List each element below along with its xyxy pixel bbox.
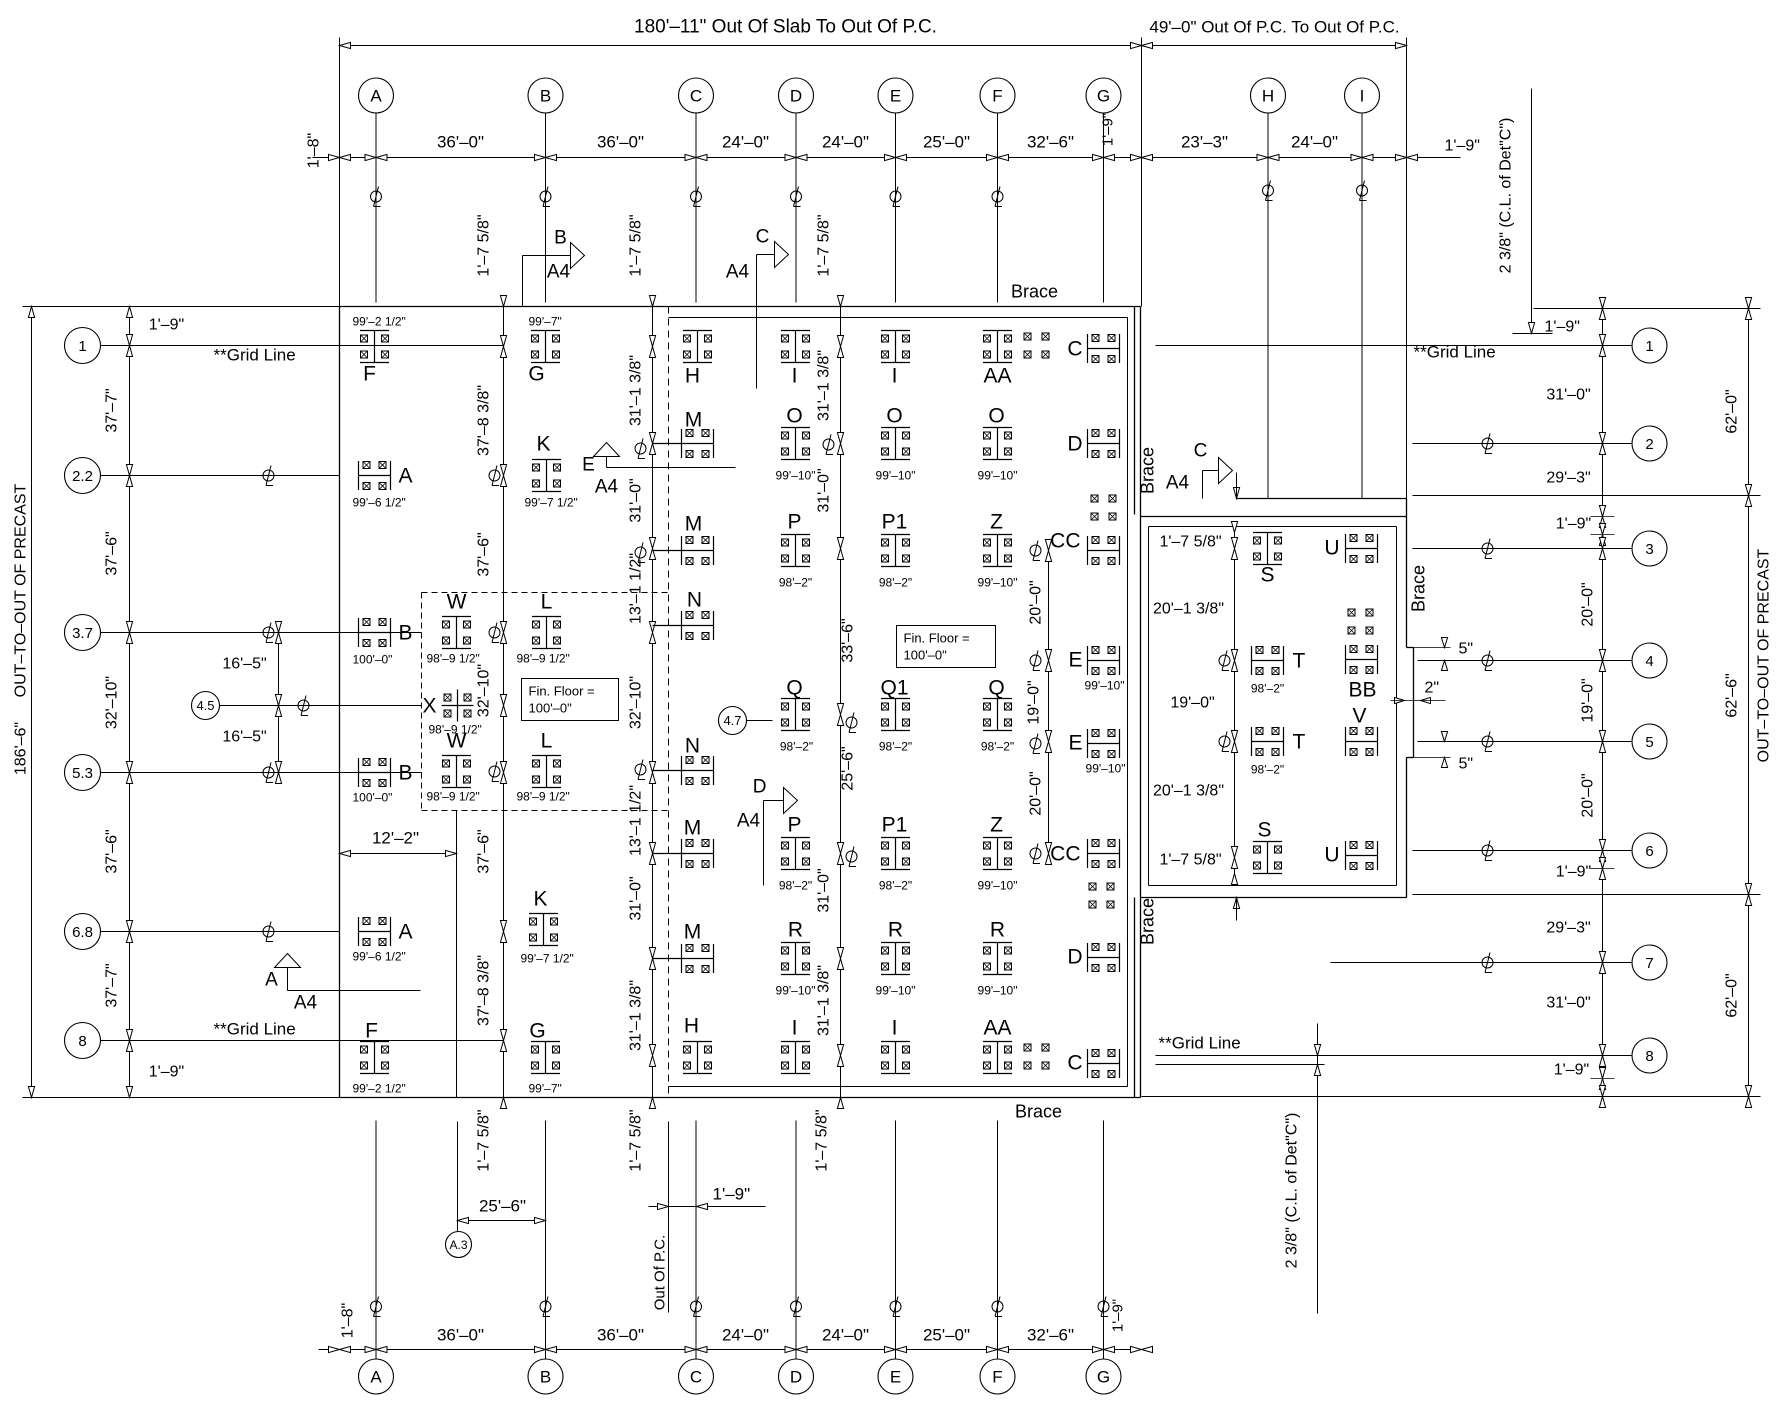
svg-text:N: N bbox=[687, 589, 702, 612]
top grid spacing dimension line bbox=[313, 157, 1461, 159]
svg-text:Fin. Floor =: Fin. Floor = bbox=[529, 684, 595, 699]
svg-text:M: M bbox=[685, 513, 703, 536]
svg-text:99'–7": 99'–7" bbox=[529, 315, 562, 329]
column H at C-1 bbox=[683, 331, 712, 388]
column O at D-2 bbox=[776, 405, 816, 483]
svg-text:23'–3": 23'–3" bbox=[1181, 133, 1228, 152]
svg-text:P: P bbox=[787, 814, 801, 837]
overall top dimension 49-0 bbox=[1142, 45, 1407, 47]
centerline mark H bbox=[1263, 181, 1274, 201]
grid line I bbox=[1361, 114, 1363, 499]
column I at D-8 bbox=[781, 1017, 810, 1074]
centerline mark E top bbox=[890, 187, 901, 207]
svg-text:1'–7 5/8": 1'–7 5/8" bbox=[476, 1109, 493, 1171]
svg-text:37'–6": 37'–6" bbox=[476, 829, 493, 873]
centerline mark D bottom bbox=[791, 1297, 802, 1317]
svg-text:98'–9 1/2": 98'–9 1/2" bbox=[427, 652, 480, 666]
svg-text:W: W bbox=[447, 591, 467, 614]
svg-text:37'–6": 37'–6" bbox=[476, 532, 493, 576]
svg-text:1'–9": 1'–9" bbox=[713, 1185, 751, 1204]
svg-text:Brace: Brace bbox=[1015, 1102, 1062, 1122]
svg-text:F: F bbox=[992, 1368, 1002, 1387]
svg-text:99'–10": 99'–10" bbox=[876, 984, 916, 998]
grid row 3.7/5.3 stubs into plan bbox=[340, 632, 422, 634]
interior dim line right of G columns (x=1048) bbox=[1048, 551, 1050, 854]
column A at A-6.8 bbox=[353, 917, 413, 964]
svg-text:V: V bbox=[1352, 705, 1366, 728]
column V bbox=[1346, 705, 1378, 757]
svg-text:OUT–TO–OUT OF PRECAST: OUT–TO–OUT OF PRECAST bbox=[13, 483, 30, 697]
svg-text:62'–6": 62'–6" bbox=[1724, 673, 1741, 717]
section arrow E bbox=[594, 443, 620, 457]
column O at F-2 bbox=[978, 405, 1018, 483]
svg-text:C: C bbox=[690, 1368, 702, 1387]
svg-text:20'–1 3/8": 20'–1 3/8" bbox=[1153, 783, 1224, 800]
column Z at F-6 bbox=[978, 814, 1018, 893]
svg-text:U: U bbox=[1324, 844, 1339, 867]
centerline mark C top bbox=[691, 187, 702, 207]
column CC lower bbox=[1050, 839, 1119, 868]
svg-text:99'–6 1/2": 99'–6 1/2" bbox=[353, 950, 406, 964]
svg-text:Brace: Brace bbox=[1138, 447, 1158, 494]
anchor bolt cluster near U bbox=[1348, 609, 1355, 616]
centerline at W/L upper bbox=[489, 623, 500, 643]
column M at C-3 bbox=[653, 513, 714, 566]
svg-text:31'–1 3/8": 31'–1 3/8" bbox=[816, 350, 833, 421]
section arrow A bbox=[275, 954, 301, 968]
svg-text:37'–7": 37'–7" bbox=[104, 963, 121, 1007]
Out of P.C. line below building bbox=[668, 1122, 670, 1313]
right out-to-out 62-ft dimension line bbox=[1534, 308, 1761, 310]
column S lower bbox=[1253, 819, 1282, 874]
svg-text:3: 3 bbox=[1645, 541, 1653, 558]
svg-text:1'–8": 1'–8" bbox=[306, 133, 323, 168]
grid line B (top) bbox=[545, 114, 547, 303]
svg-text:98'–9 1/2": 98'–9 1/2" bbox=[427, 790, 480, 804]
grid row 4.7 circle bbox=[719, 707, 747, 735]
svg-text:F: F bbox=[365, 1020, 378, 1043]
svg-text:G: G bbox=[1097, 87, 1110, 106]
column W upper bbox=[427, 591, 480, 666]
right det C reference bottom bbox=[1317, 1024, 1319, 1314]
grid line D (bottom) bbox=[795, 1121, 797, 1359]
grid row 6 (right) bbox=[1632, 833, 1667, 868]
svg-text:4.5: 4.5 bbox=[196, 698, 214, 713]
svg-text:H: H bbox=[1262, 87, 1274, 106]
column AA at F-1 bbox=[983, 331, 1012, 388]
column Q at D-4.7 bbox=[780, 677, 813, 754]
svg-text:C: C bbox=[690, 87, 702, 106]
grid row 1 (right) bbox=[1632, 328, 1667, 363]
svg-text:1'–9": 1'–9" bbox=[149, 1064, 184, 1081]
svg-text:31'–1 3/8": 31'–1 3/8" bbox=[628, 355, 645, 426]
anchor bolt cluster G line upper bbox=[1091, 495, 1098, 502]
svg-text:Brace: Brace bbox=[1138, 898, 1158, 945]
svg-text:Brace: Brace bbox=[1409, 565, 1429, 612]
svg-text:M: M bbox=[684, 817, 702, 840]
column T lower bbox=[1251, 727, 1306, 777]
svg-text:B: B bbox=[540, 1368, 551, 1387]
svg-text:A4: A4 bbox=[595, 477, 619, 498]
svg-text:98'–2": 98'–2" bbox=[981, 740, 1014, 754]
svg-text:T: T bbox=[1293, 731, 1306, 754]
grid line G (top) bbox=[1103, 114, 1105, 303]
svg-text:G: G bbox=[1097, 1368, 1110, 1387]
svg-text:W: W bbox=[447, 730, 467, 753]
svg-text:**Grid Line: **Grid Line bbox=[1159, 1034, 1241, 1053]
grid line A (bottom) bbox=[375, 1121, 377, 1359]
column L lower bbox=[517, 730, 570, 804]
svg-text:1'–7 5/8": 1'–7 5/8" bbox=[628, 1109, 645, 1171]
svg-text:32'–10": 32'–10" bbox=[628, 676, 645, 729]
25-6 dim at A.3 bbox=[457, 1122, 459, 1232]
svg-text:R: R bbox=[788, 919, 803, 942]
svg-text:49'–0" Out Of P.C. To Out Of P: 49'–0" Out Of P.C. To Out Of P.C. bbox=[1149, 18, 1399, 37]
svg-text:1: 1 bbox=[78, 338, 86, 355]
interior dim line between D and E (x=840) bbox=[840, 307, 842, 1098]
svg-text:E: E bbox=[582, 455, 595, 476]
svg-text:24'–0": 24'–0" bbox=[722, 133, 769, 152]
svg-text:D: D bbox=[790, 1368, 802, 1387]
centerline at W/L lower bbox=[489, 762, 500, 782]
16-5 dims at row 4.5 bbox=[278, 633, 280, 773]
svg-text:13'–1 1/2": 13'–1 1/2" bbox=[628, 553, 645, 624]
svg-text:R: R bbox=[990, 919, 1005, 942]
svg-text:20'–0": 20'–0" bbox=[1580, 773, 1597, 817]
svg-text:P1: P1 bbox=[882, 511, 908, 534]
svg-text:S: S bbox=[1260, 564, 1274, 587]
svg-text:99'–2 1/2": 99'–2 1/2" bbox=[353, 315, 406, 329]
svg-text:37'–6": 37'–6" bbox=[104, 829, 121, 873]
column A at A-2.2 bbox=[353, 461, 413, 510]
svg-text:1'–9": 1'–9" bbox=[1556, 864, 1591, 881]
column G at B-1 bbox=[528, 315, 561, 386]
svg-text:O: O bbox=[786, 405, 802, 428]
column I at D-1 bbox=[781, 331, 810, 388]
svg-text:5.3: 5.3 bbox=[72, 765, 93, 782]
grid line H bbox=[1267, 114, 1269, 499]
grid row 6.8 (left) bbox=[65, 914, 101, 950]
column R at E-7 bbox=[876, 919, 916, 998]
svg-text:A4: A4 bbox=[294, 993, 318, 1014]
column M at C-6 bbox=[653, 817, 714, 869]
svg-text:OUT–TO–OUT OF PRECAST: OUT–TO–OUT OF PRECAST bbox=[1756, 548, 1773, 762]
column Z at F-3 bbox=[978, 511, 1018, 590]
svg-text:U: U bbox=[1324, 537, 1339, 560]
svg-text:98'–2": 98'–2" bbox=[780, 740, 813, 754]
svg-text:99'–10": 99'–10" bbox=[1085, 679, 1125, 693]
left grid row dimension line bbox=[129, 307, 131, 1098]
svg-text:I: I bbox=[892, 365, 898, 388]
svg-text:32'–10": 32'–10" bbox=[476, 664, 493, 717]
svg-text:1'–7 5/8": 1'–7 5/8" bbox=[476, 214, 493, 276]
section arrow C bbox=[775, 242, 789, 268]
svg-text:31'–0": 31'–0" bbox=[1546, 387, 1590, 404]
svg-text:Q: Q bbox=[988, 677, 1004, 700]
svg-text:12'–2": 12'–2" bbox=[372, 829, 419, 848]
column E at G-5 bbox=[1068, 729, 1125, 776]
column P1 at E-3 bbox=[879, 511, 912, 590]
svg-text:98'–2": 98'–2" bbox=[1251, 682, 1284, 696]
svg-text:P: P bbox=[787, 511, 801, 534]
svg-text:99'–7 1/2": 99'–7 1/2" bbox=[521, 952, 574, 966]
svg-text:32'–6": 32'–6" bbox=[1027, 1326, 1074, 1345]
svg-text:E: E bbox=[890, 1368, 901, 1387]
svg-text:20'–1 3/8": 20'–1 3/8" bbox=[1153, 601, 1224, 618]
svg-text:20'–0": 20'–0" bbox=[1028, 771, 1045, 815]
svg-text:99'–10": 99'–10" bbox=[978, 469, 1018, 483]
column H at C-8 bbox=[683, 1015, 712, 1074]
svg-text:B: B bbox=[554, 228, 567, 249]
svg-text:**Grid Line: **Grid Line bbox=[214, 1020, 296, 1039]
svg-text:29'–3": 29'–3" bbox=[1546, 470, 1590, 487]
svg-text:25'–0": 25'–0" bbox=[923, 133, 970, 152]
svg-text:13'–1 1/2": 13'–1 1/2" bbox=[628, 785, 645, 856]
svg-text:62'–0": 62'–0" bbox=[1724, 973, 1741, 1017]
column B at A-5.3 bbox=[353, 758, 413, 805]
column Q1 at E-4.7 bbox=[879, 677, 912, 754]
svg-text:1'–9": 1'–9" bbox=[1110, 1299, 1127, 1332]
grid line A (top) bbox=[375, 114, 377, 303]
svg-text:B: B bbox=[399, 622, 413, 645]
svg-text:Fin. Floor =: Fin. Floor = bbox=[904, 631, 970, 646]
section marker C/A4 top bbox=[756, 255, 758, 389]
svg-text:AA: AA bbox=[983, 365, 1011, 388]
svg-text:A4: A4 bbox=[1166, 473, 1190, 494]
svg-text:D: D bbox=[1067, 433, 1082, 456]
svg-text:F: F bbox=[363, 363, 376, 386]
grid line C (top) bbox=[695, 114, 697, 303]
grid line G (bottom) bbox=[1103, 1121, 1105, 1359]
svg-text:19'–0": 19'–0" bbox=[1580, 678, 1597, 722]
svg-text:33'–6": 33'–6" bbox=[840, 618, 857, 662]
column D at G-2 bbox=[1067, 429, 1119, 458]
grid row 5 (right) bbox=[1632, 724, 1667, 759]
svg-text:98'–2": 98'–2" bbox=[779, 576, 812, 590]
svg-text:24'–0": 24'–0" bbox=[822, 1326, 869, 1345]
Fin floor box 2 bbox=[897, 626, 996, 668]
svg-text:31'–0": 31'–0" bbox=[628, 478, 645, 522]
svg-text:31'–0": 31'–0" bbox=[816, 868, 833, 912]
centerline mark A bottom bbox=[371, 1297, 382, 1317]
svg-text:99'–10": 99'–10" bbox=[978, 576, 1018, 590]
centerline at K bbox=[489, 466, 500, 486]
svg-text:D: D bbox=[1067, 946, 1082, 969]
svg-text:98'–2": 98'–2" bbox=[879, 576, 912, 590]
svg-text:1'–7 5/8": 1'–7 5/8" bbox=[628, 214, 645, 276]
svg-text:3.7: 3.7 bbox=[72, 625, 93, 642]
svg-text:2: 2 bbox=[1645, 436, 1653, 453]
svg-text:25'–6": 25'–6" bbox=[479, 1197, 526, 1216]
column X at 4.5 bbox=[422, 690, 481, 737]
svg-text:20'–0": 20'–0" bbox=[1028, 580, 1045, 624]
svg-text:A: A bbox=[370, 1368, 382, 1387]
svg-text:X: X bbox=[422, 695, 436, 718]
section marker B/A4 bbox=[522, 256, 524, 307]
svg-text:C: C bbox=[756, 227, 770, 248]
svg-text:37'–8 3/8": 37'–8 3/8" bbox=[476, 385, 493, 456]
column L upper bbox=[517, 591, 570, 666]
svg-text:99'–10": 99'–10" bbox=[876, 469, 916, 483]
column S upper bbox=[1253, 533, 1282, 587]
column O at E-2 bbox=[876, 405, 916, 483]
building outline: main slab rectangle bbox=[340, 306, 1141, 308]
svg-text:M: M bbox=[685, 409, 703, 432]
grid row 3 (right) bbox=[1632, 531, 1667, 566]
svg-text:99'–10": 99'–10" bbox=[1086, 762, 1126, 776]
svg-text:99'–10": 99'–10" bbox=[776, 984, 816, 998]
svg-text:31'–1 3/8": 31'–1 3/8" bbox=[816, 965, 833, 1036]
svg-text:4: 4 bbox=[1645, 653, 1653, 670]
column I at E-8 bbox=[881, 1017, 910, 1074]
column R at F-7 bbox=[978, 919, 1018, 998]
svg-text:Z: Z bbox=[990, 814, 1003, 837]
svg-text:24'–0": 24'–0" bbox=[1291, 133, 1338, 152]
svg-text:1'–9": 1'–9" bbox=[1100, 113, 1117, 146]
dashed detail box around W/X/L columns bbox=[422, 592, 669, 594]
svg-text:K: K bbox=[533, 888, 547, 911]
svg-text:98'–2": 98'–2" bbox=[879, 740, 912, 754]
svg-text:29'–3": 29'–3" bbox=[1546, 920, 1590, 937]
svg-text:100'–0": 100'–0" bbox=[904, 648, 948, 663]
grid line F (bottom) bbox=[997, 1121, 999, 1359]
svg-text:99'–10": 99'–10" bbox=[776, 469, 816, 483]
svg-text:36'–0": 36'–0" bbox=[437, 1326, 484, 1345]
column F at A-8 bbox=[353, 1020, 406, 1096]
column Q at F-4.7 bbox=[981, 677, 1014, 754]
svg-text:B: B bbox=[399, 762, 413, 785]
svg-text:I: I bbox=[1360, 87, 1365, 106]
svg-text:A: A bbox=[370, 87, 382, 106]
svg-text:24'–0": 24'–0" bbox=[822, 133, 869, 152]
svg-text:I: I bbox=[892, 1017, 898, 1040]
column N upper bbox=[653, 589, 714, 641]
svg-text:F: F bbox=[992, 87, 1002, 106]
svg-text:T: T bbox=[1293, 650, 1306, 673]
section arrow D bbox=[784, 788, 798, 814]
svg-text:H: H bbox=[685, 365, 700, 388]
grid line E (bottom) bbox=[895, 1121, 897, 1359]
svg-text:A4: A4 bbox=[547, 262, 571, 283]
svg-text:C: C bbox=[1194, 441, 1208, 462]
svg-text:36'–0": 36'–0" bbox=[597, 133, 644, 152]
interior dim line left of C (x=652) bbox=[652, 307, 654, 1098]
grid row 8 (left) bbox=[65, 1023, 101, 1059]
svg-text:8: 8 bbox=[1645, 1048, 1653, 1065]
svg-text:37'–7": 37'–7" bbox=[104, 388, 121, 432]
svg-text:32'–10": 32'–10" bbox=[104, 676, 121, 729]
centerline mark D top bbox=[791, 187, 802, 207]
svg-text:20'–0": 20'–0" bbox=[1580, 582, 1597, 626]
svg-text:2 3/8" (C.L. of Det"C"): 2 3/8" (C.L. of Det"C") bbox=[1284, 1113, 1301, 1269]
svg-text:Brace: Brace bbox=[1011, 282, 1058, 302]
svg-text:C: C bbox=[1067, 1052, 1082, 1075]
svg-text:1'–9": 1'–9" bbox=[1554, 1062, 1589, 1079]
svg-text:37'–8 3/8": 37'–8 3/8" bbox=[476, 955, 493, 1026]
svg-text:7: 7 bbox=[1645, 955, 1653, 972]
svg-text:Q1: Q1 bbox=[880, 677, 908, 700]
svg-text:I: I bbox=[792, 365, 798, 388]
svg-text:1'–9": 1'–9" bbox=[1445, 138, 1480, 155]
centerline mark B top bbox=[540, 187, 551, 207]
svg-text:100'–0": 100'–0" bbox=[353, 653, 393, 667]
svg-text:M: M bbox=[684, 921, 702, 944]
svg-text:H: H bbox=[684, 1015, 699, 1038]
bottom grid spacing dimension line bbox=[319, 1349, 1142, 1351]
svg-text:A.3: A.3 bbox=[449, 1238, 467, 1252]
svg-text:16'–5": 16'–5" bbox=[222, 729, 266, 746]
svg-text:5": 5" bbox=[1459, 756, 1474, 773]
svg-text:B: B bbox=[540, 87, 551, 106]
grid line B (bottom) bbox=[545, 1121, 547, 1359]
svg-text:98'–2": 98'–2" bbox=[779, 879, 812, 893]
centerline mark E bottom bbox=[890, 1297, 901, 1317]
grid row 5.3 (left) bbox=[65, 755, 101, 791]
anchor bolt cluster G line lower bbox=[1089, 883, 1096, 890]
svg-text:Z: Z bbox=[990, 511, 1003, 534]
12-2 dim lower-left bbox=[340, 853, 457, 855]
interior dim line between A and B (x=503) bbox=[503, 307, 505, 1098]
svg-text:1: 1 bbox=[1645, 338, 1653, 355]
svg-text:25'–6": 25'–6" bbox=[840, 746, 857, 790]
svg-text:G: G bbox=[528, 363, 544, 386]
centerline mark I bbox=[1357, 181, 1368, 201]
centerline at T upper bbox=[1219, 651, 1230, 671]
column N lower bbox=[653, 735, 714, 786]
svg-text:C: C bbox=[1067, 338, 1082, 361]
inner brace frame of main slab bbox=[669, 317, 1128, 319]
right 1-9/31-0 dimension line x=1602 bbox=[1602, 309, 1604, 1097]
svg-text:8: 8 bbox=[78, 1033, 86, 1050]
column AA at F-8 bbox=[983, 1017, 1012, 1074]
column T upper bbox=[1251, 646, 1306, 696]
svg-text:31'–1 3/8": 31'–1 3/8" bbox=[628, 980, 645, 1051]
svg-text:36'–0": 36'–0" bbox=[437, 133, 484, 152]
svg-text:**Grid Line: **Grid Line bbox=[1414, 343, 1496, 362]
column M at C-2 bbox=[653, 409, 714, 459]
Fin floor box 1 bbox=[522, 679, 619, 721]
svg-text:31'–0": 31'–0" bbox=[1546, 995, 1590, 1012]
svg-text:CC: CC bbox=[1050, 843, 1080, 866]
centerline mark B bottom bbox=[540, 1297, 551, 1317]
svg-text:98'–9 1/2": 98'–9 1/2" bbox=[517, 790, 570, 804]
svg-text:19'–0": 19'–0" bbox=[1026, 680, 1043, 724]
svg-text:O: O bbox=[886, 405, 902, 428]
centerline mark C bottom bbox=[691, 1297, 702, 1317]
svg-text:99'–10": 99'–10" bbox=[978, 984, 1018, 998]
svg-text:2 3/8" (C.L. of Det"C"): 2 3/8" (C.L. of Det"C") bbox=[1498, 118, 1515, 274]
svg-text:6: 6 bbox=[1645, 843, 1653, 860]
grid line E (top) bbox=[895, 114, 897, 303]
svg-text:A4: A4 bbox=[737, 811, 761, 832]
svg-text:Out Of P.C.: Out Of P.C. bbox=[652, 1235, 669, 1311]
svg-text:98'–2": 98'–2" bbox=[879, 879, 912, 893]
svg-text:R: R bbox=[888, 919, 903, 942]
column M at C-7 bbox=[653, 921, 714, 974]
left overall dimension 186-6 bbox=[23, 306, 340, 308]
svg-text:2": 2" bbox=[1425, 680, 1440, 697]
centerline mark G bottom bbox=[1098, 1297, 1109, 1317]
svg-text:1'–7 5/8": 1'–7 5/8" bbox=[816, 214, 833, 276]
svg-text:100'–0": 100'–0" bbox=[353, 791, 393, 805]
grid row 8 (right) bbox=[1632, 1038, 1667, 1073]
column R at D-7 bbox=[776, 919, 816, 998]
svg-text:32'–6": 32'–6" bbox=[1027, 133, 1074, 152]
column I at E-1 bbox=[881, 331, 910, 388]
svg-text:25'–0": 25'–0" bbox=[923, 1326, 970, 1345]
grid row 1 (left) bbox=[65, 328, 101, 364]
column E at G-4 bbox=[1068, 646, 1124, 693]
